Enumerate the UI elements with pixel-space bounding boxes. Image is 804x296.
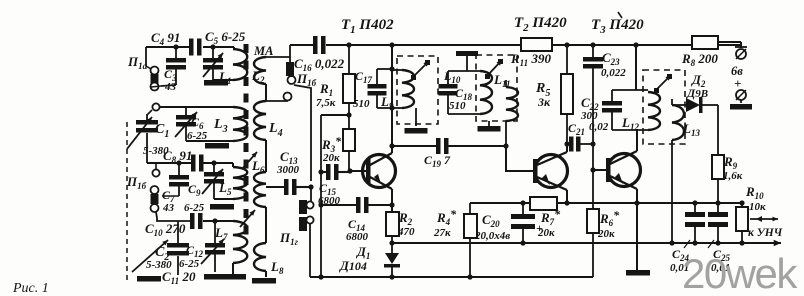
resistor R7 xyxy=(530,197,557,210)
inductor L4 xyxy=(265,84,267,101)
node C21-C23 join xyxy=(590,141,595,146)
inductor L1 xyxy=(233,47,235,49)
capacitor C15 xyxy=(318,169,323,174)
wire tank2 bottom xyxy=(186,140,233,142)
resistor R11 xyxy=(521,38,552,51)
svg-text:43: 43 xyxy=(164,81,177,93)
svg-text:R8 200: R8 200 xyxy=(681,51,718,68)
resistor R6 xyxy=(592,170,594,209)
inductor L5 xyxy=(232,163,234,167)
ground tank3 xyxy=(210,204,234,210)
svg-text:510: 510 xyxy=(449,100,466,112)
gang dashed line xyxy=(244,44,249,236)
variable capacitor C2 xyxy=(177,221,179,243)
wire П1б pole down xyxy=(156,212,190,221)
transistor T3 xyxy=(608,154,641,187)
wire T1 emitter xyxy=(389,202,394,207)
ground T3 emitter xyxy=(626,270,650,276)
svg-text:С4 91: С4 91 xyxy=(151,30,180,47)
inductor L12 xyxy=(648,92,660,130)
node C16-R1-rail xyxy=(346,42,351,47)
common rail y=243 xyxy=(392,242,770,244)
ground tank2 xyxy=(205,143,229,149)
wire tank2 top xyxy=(160,106,234,108)
capacitor C25 xyxy=(715,200,720,205)
svg-text:Рис. 1: Рис. 1 xyxy=(12,281,49,296)
top supply rail xyxy=(349,44,521,46)
diode D2 xyxy=(671,99,673,105)
inductor L9 xyxy=(392,69,402,71)
bottom rail y=277 xyxy=(310,276,593,278)
node R2 bottom xyxy=(389,240,394,245)
inductor L11 xyxy=(505,80,507,87)
node rail R5 xyxy=(564,42,569,47)
node C4-C3 junction xyxy=(173,44,178,49)
node T2 emitter rail xyxy=(564,200,569,205)
switch П1г xyxy=(299,200,307,214)
IF transformer 3 dashed box xyxy=(643,70,685,144)
capacitor C19 xyxy=(392,145,436,147)
node D1 bottom rail xyxy=(389,274,394,279)
node C12 tap xyxy=(212,218,217,223)
resistor R4 xyxy=(469,203,471,214)
wire П1г pole down xyxy=(309,224,311,277)
node T1 collector top xyxy=(389,42,394,47)
svg-text:1,6к: 1,6к xyxy=(723,170,743,182)
svg-text:+: + xyxy=(734,76,741,91)
diode D1 xyxy=(385,253,399,264)
trimmer capacitor C9 xyxy=(213,163,215,172)
wire R8 to battery xyxy=(718,41,741,43)
svg-text:С16 0,022: С16 0,022 xyxy=(294,56,345,73)
wire tank1 bottom xyxy=(213,79,233,81)
trimmer capacitor C12 xyxy=(214,221,216,243)
variable capacitor C1 xyxy=(147,110,152,115)
inductor L7 xyxy=(233,221,247,263)
svg-text:510: 510 xyxy=(353,98,370,110)
shield ground bar box2 xyxy=(456,51,478,56)
battery terminal bottom xyxy=(736,90,746,100)
svg-text:3000: 3000 xyxy=(276,164,300,176)
wire L2 top to switch xyxy=(266,56,290,58)
svg-text:С5 6-25: С5 6-25 xyxy=(205,29,246,46)
trimmer capacitor C6 xyxy=(185,107,187,115)
core trimmer arrow box1 xyxy=(413,61,429,77)
switch contact П1в right xyxy=(289,45,291,62)
wire L4-L6 xyxy=(265,140,267,172)
svg-text:С11 20: С11 20 xyxy=(162,269,196,286)
resistor R3 xyxy=(348,115,350,129)
wire R1 node left xyxy=(321,114,349,116)
ground L7 xyxy=(222,274,246,280)
capacitor C18 xyxy=(447,71,449,84)
wire bus to switch П1г xyxy=(310,187,312,201)
svg-text:20,0х4в: 20,0х4в xyxy=(474,230,510,242)
svg-text:7,5к: 7,5к xyxy=(316,97,336,109)
inductor L3 xyxy=(233,107,247,141)
ground box2 xyxy=(488,121,490,126)
svg-text:300: 300 xyxy=(580,110,598,122)
resistor R1 xyxy=(348,45,350,74)
svg-text:Д9В: Д9В xyxy=(686,86,708,100)
switch pole П1а xyxy=(152,103,159,110)
inductor L6 with trimmer xyxy=(254,172,266,207)
wire C15 bus down xyxy=(320,172,322,277)
trimmer capacitor C5 xyxy=(212,47,214,58)
wire L6-L8 xyxy=(265,207,267,243)
wire T1 collector xyxy=(391,45,393,153)
ground C12-C11 xyxy=(204,274,228,280)
svg-text:к УНЧ: к УНЧ xyxy=(748,227,783,239)
capacitor C3 xyxy=(175,47,177,58)
switch contact П1б upper xyxy=(155,163,157,169)
capacitor C14 xyxy=(318,202,323,207)
switch contact П1а xyxy=(145,47,147,66)
wire tank2p top xyxy=(448,70,480,72)
wire C3 to contact xyxy=(151,86,161,87)
potentiometer R10 xyxy=(739,200,744,205)
resistor R2 xyxy=(386,212,399,236)
svg-text:R11 390: R11 390 xyxy=(510,51,551,68)
svg-text:20wek: 20wek xyxy=(682,250,798,296)
core trimmer arrow box3 xyxy=(656,75,671,90)
detector rail y=203 xyxy=(470,202,530,204)
wire band bus y=163 xyxy=(147,162,191,164)
inductor L8 with trimmer xyxy=(254,243,266,271)
node T3 base xyxy=(590,167,595,172)
node C7 tap xyxy=(176,160,181,165)
wire L11 to T2 base xyxy=(505,121,507,146)
node T1 base xyxy=(347,168,352,173)
capacitor C20 electrolytic xyxy=(520,200,525,205)
tank3 bottom wire xyxy=(612,129,648,131)
node R4 bottom xyxy=(467,274,472,279)
svg-text:20к: 20к xyxy=(322,152,340,164)
switch contact П1б xyxy=(151,194,159,204)
capacitor C17 branch xyxy=(389,66,394,71)
node C4-C5 junction xyxy=(210,44,215,49)
core trimmer arrow box2 xyxy=(487,60,502,76)
svg-text:С10 270: С10 270 xyxy=(145,221,186,238)
capacitor C22 xyxy=(611,90,613,101)
svg-text:470: 470 xyxy=(397,226,415,238)
node T3 emitter rail xyxy=(634,200,639,205)
wire rail to tank3 xyxy=(635,45,637,90)
ground L8 xyxy=(265,271,267,277)
capacitor C4 xyxy=(189,39,194,56)
resistor R5 xyxy=(566,45,568,74)
svg-text:27к: 27к xyxy=(433,227,451,239)
ground battery xyxy=(740,100,742,103)
ground C2 xyxy=(137,276,161,282)
svg-text:0,02: 0,02 xyxy=(589,121,609,133)
svg-text:+: + xyxy=(536,221,543,235)
capacitor C24 xyxy=(692,200,697,205)
capacitor C7 xyxy=(178,163,180,175)
svg-text:43: 43 xyxy=(162,202,175,214)
wire D2 down xyxy=(717,105,719,155)
capacitor C23 xyxy=(590,42,595,47)
dashed line tuning gang C1-C2 xyxy=(126,122,128,284)
wire top antenna row y=47 xyxy=(146,46,189,48)
svg-text:6800: 6800 xyxy=(346,231,369,243)
wire to L7 xyxy=(203,220,233,222)
inductor L10 xyxy=(480,71,492,114)
svg-text:3к: 3к xyxy=(537,95,551,109)
svg-text:0,022: 0,022 xyxy=(601,67,626,79)
svg-text:С8 91: С8 91 xyxy=(163,148,192,165)
node C15 bus bottom xyxy=(318,274,323,279)
inductor L2 xyxy=(254,57,266,84)
tank3 top wire xyxy=(612,89,648,91)
svg-text:20к: 20к xyxy=(597,228,615,240)
battery terminal top xyxy=(736,49,746,59)
inductor L13 xyxy=(672,105,684,140)
wire L13 bottom to rail xyxy=(671,140,673,243)
node T2 collector xyxy=(564,141,569,146)
resistor R9 xyxy=(712,155,724,179)
capacitor C13 xyxy=(266,186,284,188)
wire contact to L4 xyxy=(266,100,287,101)
ground tank1 xyxy=(204,80,228,86)
svg-text:6-25: 6-25 xyxy=(184,202,205,214)
ground box1 xyxy=(415,108,417,126)
node C19 tap xyxy=(389,143,394,148)
capacitor C10 xyxy=(190,213,195,229)
transistor T1 xyxy=(363,155,396,188)
capacitor C21 xyxy=(567,143,569,145)
wire tank2p bottom xyxy=(448,113,480,115)
svg-text:МА: МА xyxy=(253,44,273,58)
node R1-R3 xyxy=(346,112,351,117)
wire П1в to bus xyxy=(294,85,311,181)
IF transformer 1 dashed box xyxy=(397,56,438,124)
capacitor C16 xyxy=(290,44,313,46)
svg-text:10к: 10к xyxy=(749,201,766,213)
svg-text:Д104: Д104 xyxy=(339,258,367,273)
node rail tank3 xyxy=(633,42,638,47)
IF transformer 2 dashed box xyxy=(476,55,517,121)
node C9 tap xyxy=(211,160,216,165)
resistor R8 xyxy=(692,36,718,49)
capacitor C8 xyxy=(191,155,196,172)
wiper arrow R10 xyxy=(750,218,778,220)
transistor T2 xyxy=(535,155,568,188)
wire tank3 bottom xyxy=(214,198,233,200)
